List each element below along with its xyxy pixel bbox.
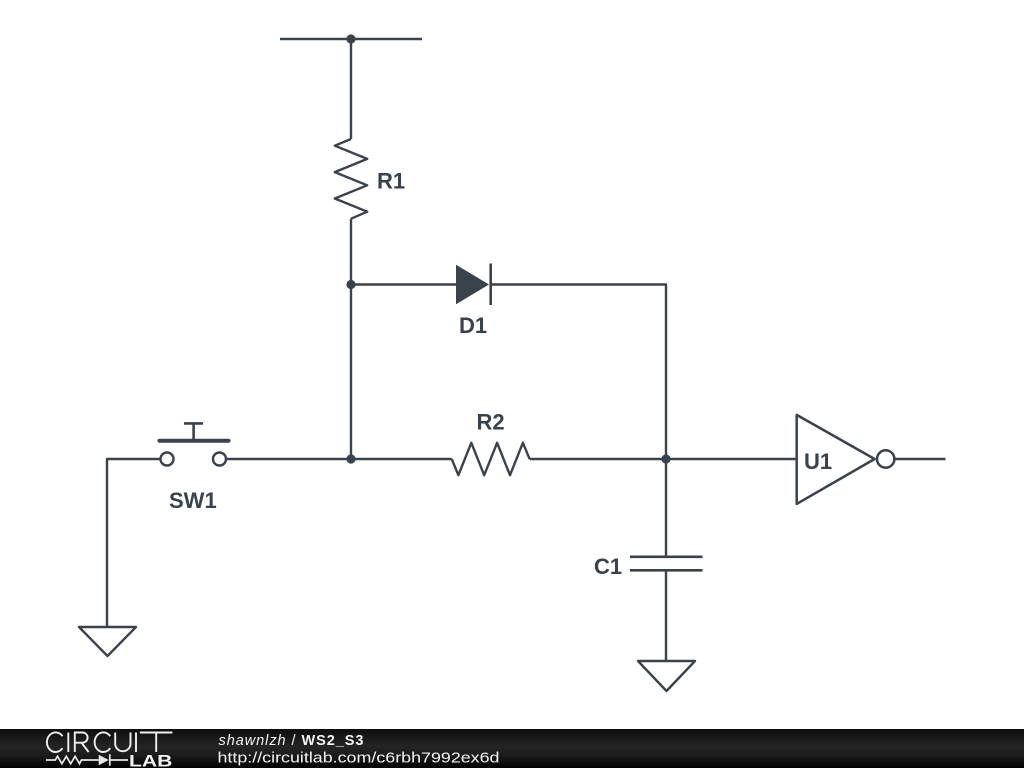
junction dot main node bbox=[346, 454, 355, 463]
wire diode cathode to right rail corner bbox=[491, 285, 666, 460]
junction dot on rail bbox=[346, 34, 355, 43]
svg-text:http://circuitlab.com/c6rbh799: http://circuitlab.com/c6rbh7992ex6d bbox=[218, 750, 500, 767]
wire C node down to C1 bbox=[665, 459, 667, 556]
logo CIRCUIT bbox=[47, 732, 172, 752]
footer bar bbox=[0, 729, 1024, 768]
wire rail to R1 bbox=[350, 39, 352, 139]
svg-text:R2: R2 bbox=[477, 410, 505, 435]
wire inverter output bbox=[895, 458, 946, 460]
switch SW1 bbox=[160, 423, 229, 465]
wire R2 to C node bbox=[530, 458, 666, 460]
svg-text:SW1: SW1 bbox=[169, 488, 217, 513]
capacitor C1 bbox=[630, 557, 703, 571]
svg-text:LAB: LAB bbox=[129, 752, 172, 768]
power rail bbox=[280, 38, 422, 40]
wire C node to inverter input bbox=[666, 458, 797, 460]
wire R1 down to main node bbox=[350, 219, 352, 459]
resistor R2 bbox=[452, 443, 530, 475]
junction dot C node bbox=[661, 454, 670, 463]
wire diode anode lead bbox=[351, 283, 457, 285]
svg-text:U1: U1 bbox=[804, 449, 832, 474]
svg-text:R1: R1 bbox=[377, 169, 405, 194]
wire switch right to R2 bbox=[226, 458, 452, 460]
svg-text:D1: D1 bbox=[459, 313, 487, 338]
inverter U1 bbox=[797, 415, 895, 504]
wire switch left to ground bbox=[107, 459, 161, 627]
resistor R1 bbox=[335, 139, 367, 219]
svg-text:C1: C1 bbox=[594, 554, 622, 579]
ground symbol (left) bbox=[79, 627, 136, 656]
svg-text:shawnlzh / WS2_S3: shawnlzh / WS2_S3 bbox=[219, 733, 365, 749]
ground symbol (under C1) bbox=[638, 661, 695, 691]
diode D1 bbox=[456, 264, 491, 306]
wire C1 to ground bbox=[665, 570, 667, 661]
logo squiggle bbox=[46, 754, 128, 766]
junction dot diode tap bbox=[346, 280, 355, 289]
